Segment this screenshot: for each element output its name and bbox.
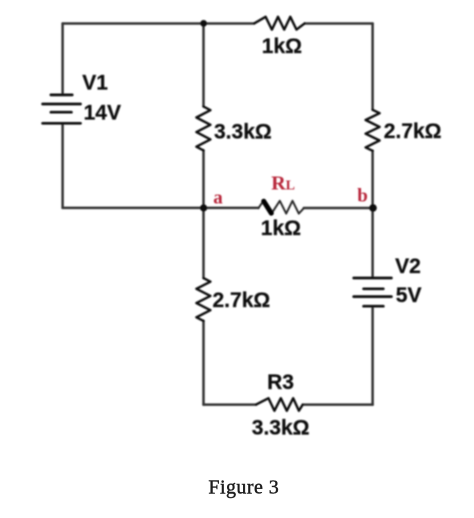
svg-text:2.7kΩ: 2.7kΩ	[384, 120, 442, 143]
svg-text:V2: V2	[395, 255, 421, 278]
svg-text:2.7kΩ: 2.7kΩ	[213, 289, 271, 312]
svg-text:3.3kΩ: 3.3kΩ	[214, 121, 272, 144]
svg-text:b: b	[357, 186, 368, 207]
svg-text:V1: V1	[82, 71, 108, 94]
svg-text:5V: 5V	[396, 284, 422, 307]
svg-text:R3: R3	[267, 371, 294, 394]
svg-text:R: R	[271, 173, 286, 195]
svg-text:L: L	[286, 179, 295, 194]
svg-text:a: a	[213, 187, 223, 208]
svg-text:Figure 3: Figure 3	[208, 477, 279, 499]
svg-text:3.3kΩ: 3.3kΩ	[252, 416, 310, 439]
svg-text:1kΩ: 1kΩ	[262, 35, 302, 58]
svg-text:14V: 14V	[84, 101, 121, 124]
svg-text:1kΩ: 1kΩ	[261, 217, 301, 240]
